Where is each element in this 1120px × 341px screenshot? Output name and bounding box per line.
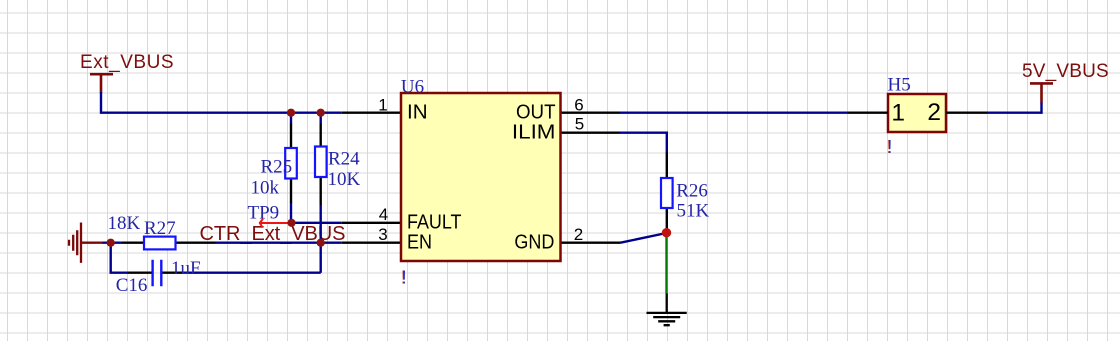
svg-text:U6: U6 — [401, 77, 424, 98]
wire stub R25 bottom — [290, 203, 292, 223]
wire OUT to H5 — [620, 111, 848, 113]
svg-text:EN: EN — [407, 231, 432, 253]
svg-text:C16: C16 — [116, 275, 148, 296]
error marker below U6 — [401, 267, 407, 287]
wire C16 branch — [111, 243, 321, 273]
pin 4 FAULT lead — [342, 222, 401, 224]
svg-text:R24: R24 — [328, 149, 360, 170]
connector H5 body — [888, 74, 947, 132]
svg-text:3: 3 — [378, 225, 387, 244]
wire Ext_VBUS to pin 1 of U6 — [101, 92, 342, 113]
svg-text:OUT: OUT — [516, 101, 556, 123]
svg-text:2: 2 — [574, 225, 583, 244]
svg-text:1: 1 — [378, 95, 387, 114]
svg-text:10K: 10K — [328, 169, 361, 190]
wire stub R25 top — [290, 113, 292, 124]
svg-text:10k: 10k — [251, 177, 280, 198]
svg-text:R25: R25 — [261, 156, 293, 177]
junction dot B (top, R24) — [317, 109, 325, 117]
junction dot D (R27 left) — [107, 239, 115, 247]
wire R24 top stub and vertical through EN down to C16 branch — [320, 113, 322, 273]
junction dot C (TP9/FAULT) — [287, 219, 295, 227]
pin 2 GND lead — [561, 241, 621, 243]
svg-text:GND: GND — [514, 232, 554, 254]
svg-text:H5: H5 — [888, 74, 911, 95]
junction dot F (R26/GND) — [662, 228, 671, 237]
wire GND diagonal to junction — [621, 233, 667, 243]
pin 3 EN lead — [342, 241, 401, 243]
ground (signal gnd, left, dark red) — [69, 223, 103, 263]
svg-text:Ext_VBUS: Ext_VBUS — [80, 52, 174, 73]
svg-text:51K: 51K — [677, 201, 710, 222]
svg-text:5: 5 — [575, 114, 584, 133]
power port Ext_VBUS — [80, 52, 174, 93]
resistor R24 — [315, 124, 361, 206]
wire green to ground — [665, 236, 667, 293]
test point TP9 — [248, 203, 292, 228]
junction dot E (EN/R24/C16) — [317, 239, 325, 247]
wire ILIM to R26 — [620, 133, 667, 153]
svg-text:TP9: TP9 — [248, 203, 280, 224]
power port 5V_VBUS — [1022, 61, 1109, 103]
H5 pin 1 lead — [848, 111, 888, 113]
svg-text:!: ! — [402, 267, 407, 287]
svg-text:IN: IN — [407, 101, 428, 123]
svg-text:2: 2 — [927, 99, 941, 126]
pin 1 IN lead — [342, 111, 401, 113]
error marker below H5 — [887, 137, 893, 157]
pin 6 OUT lead — [561, 111, 621, 113]
wire FAULT net — [292, 222, 342, 224]
resistor R27 — [108, 213, 216, 250]
svg-text:18K: 18K — [108, 213, 141, 234]
svg-text:!: ! — [887, 137, 892, 157]
svg-text:ILIM: ILIM — [512, 121, 556, 143]
H5 pin 2 lead — [946, 111, 987, 113]
svg-text:R27: R27 — [144, 218, 176, 239]
svg-text:R26: R26 — [676, 180, 708, 201]
svg-text:6: 6 — [574, 95, 583, 114]
svg-text:FAULT: FAULT — [407, 211, 462, 233]
wire H5 pin2 to 5V_VBUS — [987, 102, 1042, 113]
resistor R26 — [661, 152, 710, 231]
ground (earth, bottom, black) — [647, 293, 687, 325]
pin 5 ILIM lead — [561, 131, 621, 133]
junction dot A (top, R25) — [287, 109, 295, 117]
svg-text:5V_VBUS: 5V_VBUS — [1022, 61, 1109, 82]
capacitor C16 — [116, 258, 201, 296]
resistor R25 — [251, 124, 297, 204]
svg-text:4: 4 — [379, 205, 388, 224]
svg-text:1uF: 1uF — [171, 258, 201, 279]
IC U6 body — [401, 77, 561, 261]
wire EN / CTR_Ext_VBUS net — [102, 241, 342, 243]
svg-text:1: 1 — [891, 99, 905, 126]
